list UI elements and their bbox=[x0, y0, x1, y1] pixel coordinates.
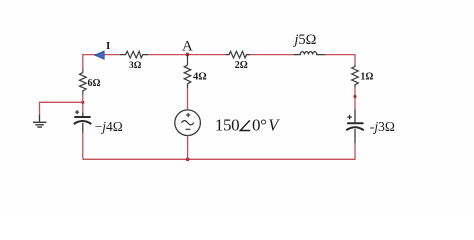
label -j3ohm bbox=[370, 119, 395, 134]
svg-text:A: A bbox=[182, 39, 193, 55]
svg-text:j5Ω: j5Ω bbox=[292, 32, 316, 48]
junction dot right bbox=[353, 95, 356, 98]
resistor R 4ohm bbox=[184, 65, 191, 88]
wire top mid-left segment bbox=[148, 54, 226, 56]
resistor R 2ohm bbox=[226, 51, 250, 58]
wire top-left segment bbox=[83, 54, 120, 56]
junction dot bottom bbox=[186, 157, 190, 161]
wire right upper segment bbox=[354, 54, 356, 65]
resistor R 1ohm bbox=[352, 65, 359, 88]
wire right lower segment bbox=[354, 143, 356, 159]
wire top-right segment bbox=[325, 54, 356, 56]
wire left upper segment bbox=[82, 54, 84, 70]
label j5ohm bbox=[292, 32, 316, 48]
label 3ohm bbox=[129, 61, 142, 71]
capacitor C -j3ohm bbox=[346, 110, 364, 144]
svg-text:0°: 0° bbox=[252, 115, 267, 134]
svg-text:−j4Ω: −j4Ω bbox=[95, 119, 123, 134]
svg-text:3Ω: 3Ω bbox=[129, 61, 142, 71]
resistor R 3ohm bbox=[120, 51, 148, 58]
svg-text:I: I bbox=[106, 40, 110, 52]
current arrow I bbox=[95, 51, 104, 59]
resistor R 6ohm bbox=[80, 70, 87, 95]
label 6ohm bbox=[88, 78, 101, 89]
wire ground vertical bbox=[39, 102, 41, 115]
svg-text:-j3Ω: -j3Ω bbox=[370, 119, 395, 134]
svg-text:6Ω: 6Ω bbox=[88, 78, 101, 89]
svg-text:4Ω: 4Ω bbox=[193, 71, 207, 82]
wire left lower segment bbox=[82, 133, 84, 159]
wire ground horizontal bbox=[40, 101, 83, 103]
label A bbox=[182, 39, 193, 55]
inductor L j5ohm bbox=[294, 52, 325, 55]
wire top mid-right segment bbox=[250, 54, 294, 56]
wire 4ohm to source bbox=[187, 88, 189, 110]
ground bbox=[33, 115, 47, 128]
label 150 angle 0 deg V bbox=[215, 115, 280, 134]
wire node A to 4ohm bbox=[187, 55, 189, 65]
voltage source V1 bbox=[175, 110, 201, 136]
node A dot bbox=[186, 53, 190, 57]
svg-text:1Ω: 1Ω bbox=[360, 72, 373, 83]
label 4ohm bbox=[193, 71, 207, 82]
label -j4ohm bbox=[95, 119, 123, 134]
svg-text:V: V bbox=[268, 115, 280, 134]
label 2ohm bbox=[235, 60, 248, 71]
label I bbox=[106, 40, 110, 52]
wire right mid segment bbox=[354, 88, 356, 110]
wire left mid segment bbox=[82, 95, 84, 113]
label 1ohm bbox=[360, 72, 373, 83]
svg-text:2Ω: 2Ω bbox=[235, 60, 248, 71]
wire source to bottom bbox=[187, 136, 189, 160]
svg-text:150: 150 bbox=[215, 115, 239, 134]
wire bottom bbox=[83, 158, 356, 160]
capacitor C -j4ohm bbox=[74, 110, 92, 133]
junction dot left bbox=[81, 101, 84, 104]
